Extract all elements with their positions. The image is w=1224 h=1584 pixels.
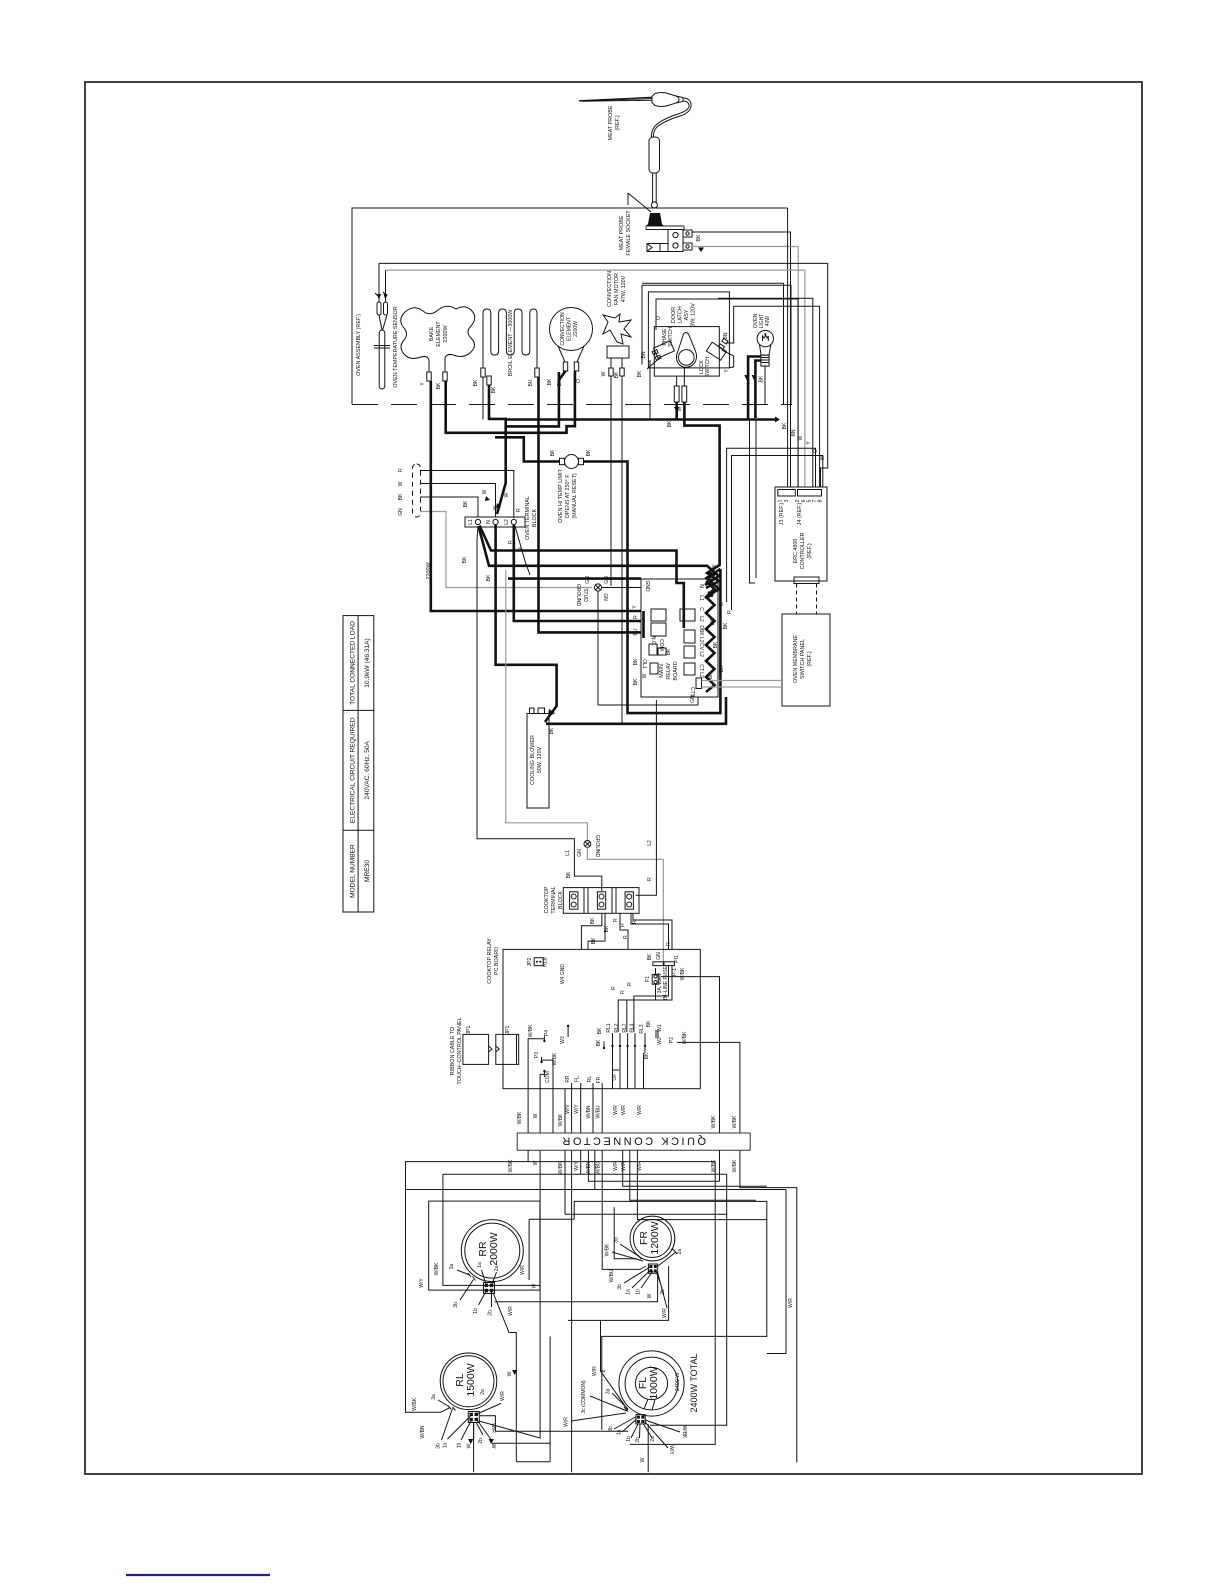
- svg-text:W/Y: W/Y: [668, 1445, 674, 1455]
- zigzag into relay N: [705, 569, 720, 598]
- svg-text:GROUND: GROUND: [594, 835, 600, 858]
- svg-text:1a: 1a: [626, 1289, 632, 1295]
- svg-text:ELEMENT: ELEMENT: [436, 321, 442, 347]
- svg-text:W/R: W/R: [500, 1391, 506, 1401]
- svg-text:BK: BK: [719, 665, 725, 672]
- svg-text:R: R: [633, 615, 639, 619]
- svg-text:ELECTRICAL CIRCUIT REQUIRED: ELECTRICAL CIRCUIT REQUIRED: [350, 717, 357, 823]
- svg-text:W/Y: W/Y: [574, 1104, 580, 1114]
- thick wire: broil left BK: [482, 377, 484, 420]
- svg-text:W/R: W/R: [520, 1265, 526, 1275]
- P3: [542, 1057, 554, 1068]
- svg-text:BK: BK: [759, 375, 765, 382]
- svg-text:BK: BK: [597, 1027, 603, 1034]
- svg-text:W/BN: W/BN: [586, 1161, 592, 1174]
- GROUND drop: [506, 570, 588, 840]
- svg-text:BN: BN: [641, 351, 647, 358]
- burner FR 1200W: [630, 1216, 675, 1261]
- svg-text:BK: BK: [633, 678, 639, 685]
- svg-text:W/Y: W/Y: [574, 1161, 580, 1171]
- thick bus lower: [508, 577, 641, 580]
- svg-text:BK: BK: [723, 622, 729, 629]
- oven temperature sensor: [374, 263, 390, 389]
- svg-text:BK: BK: [667, 420, 673, 427]
- RL terminal cluster: [438, 1400, 501, 1440]
- supply leads entry: [398, 464, 592, 588]
- svg-text:MAIN: MAIN: [659, 664, 665, 678]
- svg-text:W/BK: W/BK: [412, 1397, 418, 1410]
- svg-text:240VAC, 60Hz, 50A: 240VAC, 60Hz, 50A: [364, 740, 371, 799]
- svg-text:L1: L1: [468, 519, 474, 525]
- svg-text:COOLING BLOWER: COOLING BLOWER: [530, 735, 536, 785]
- light wires down to membrane area: [750, 419, 757, 583]
- svg-text:BK: BK: [463, 500, 469, 507]
- svg-text:BK: BK: [637, 370, 643, 377]
- svg-text:GN: GN: [604, 576, 610, 584]
- thick wire: lockY jog to temp limit: [495, 437, 560, 461]
- svg-text:RL: RL: [587, 1076, 593, 1083]
- svg-text:BK: BK: [604, 925, 610, 932]
- svg-text:L2: L2: [698, 616, 704, 622]
- svg-text:BK: BK: [436, 382, 442, 389]
- svg-text:OL1: OL1: [641, 659, 647, 669]
- blower thick wire to relay: [546, 697, 726, 724]
- svg-text:W/BK: W/BK: [711, 1115, 717, 1128]
- svg-text:RIBBON CABLE TO: RIBBON CABLE TO: [450, 1027, 456, 1076]
- svg-text:3a: 3a: [431, 1394, 437, 1400]
- svg-text:W3: W3: [560, 1036, 566, 1044]
- zigzag wires right of relay board: [706, 581, 715, 692]
- cooling blower: [527, 714, 549, 809]
- wire probe BK vertical: [787, 208, 789, 487]
- ground stud: [594, 584, 601, 591]
- svg-text:2b: 2b: [488, 1310, 494, 1316]
- phase switch: [647, 341, 674, 369]
- svg-text:FEMALE SOCKET: FEMALE SOCKET: [626, 210, 632, 256]
- lock switch wires: [727, 306, 820, 487]
- wires through quick connector: [406, 1046, 797, 1472]
- convection element: [550, 308, 593, 351]
- svg-text:W/Y: W/Y: [419, 1278, 425, 1288]
- svg-text:JP1: JP1: [505, 1025, 511, 1034]
- svg-text:OVEN TEMPERATURE SENSOR: OVEN TEMPERATURE SENSOR: [393, 306, 399, 387]
- svg-text:W/BK: W/BK: [605, 1243, 611, 1256]
- svg-text:CV L2: CV L2: [698, 643, 704, 657]
- L1 drop: [477, 526, 602, 891]
- svg-text:W/R: W/R: [613, 1161, 619, 1171]
- svg-text:SWITCH PANEL: SWITCH PANEL: [800, 639, 806, 679]
- bake element: [401, 306, 475, 372]
- lock switch: [706, 338, 728, 360]
- door latch outer box: [642, 285, 791, 404]
- leader from L2: [515, 526, 530, 575]
- svg-text:OVEN MEMBRANE: OVEN MEMBRANE: [793, 635, 799, 683]
- svg-text:W: W: [504, 492, 510, 497]
- oven light: [757, 330, 773, 404]
- svg-text:P4: P4: [544, 1030, 550, 1036]
- svg-text:GN: GN: [656, 952, 662, 960]
- svg-text:W/BU: W/BU: [609, 1269, 615, 1282]
- svg-text:BOARD: BOARD: [673, 661, 679, 680]
- svg-text:W/R: W/R: [621, 1161, 627, 1171]
- svg-text:2a: 2a: [677, 1249, 683, 1255]
- svg-text:BK: BK: [473, 379, 479, 386]
- thick wire: broil BU to relay BU: [539, 377, 642, 632]
- svg-text:CONVECTION: CONVECTION: [560, 312, 566, 346]
- svg-text:FAN MOTOR: FAN MOTOR: [614, 273, 620, 305]
- svg-text:C: C: [698, 607, 704, 611]
- wire socket BK to bus: [692, 232, 791, 487]
- F1 fuse: [652, 968, 659, 992]
- svg-text:CONVECTION: CONVECTION: [607, 271, 613, 307]
- svg-text:COM: COM: [545, 1071, 551, 1083]
- svg-text:2b: 2b: [478, 1438, 484, 1444]
- thick bottom bundle wire: [506, 418, 775, 421]
- svg-text:W/BK: W/BK: [517, 1111, 523, 1124]
- sensor wires to controller: [379, 263, 828, 487]
- svg-text:BK: BK: [666, 648, 672, 655]
- svg-text:BK: BK: [566, 871, 572, 878]
- svg-text:W/BK: W/BK: [558, 1161, 564, 1174]
- svg-text:N: N: [698, 584, 704, 588]
- oven terminal block: [465, 517, 525, 527]
- svg-text:BLOCK: BLOCK: [558, 890, 564, 909]
- light thick wires: [748, 357, 761, 420]
- svg-text:GND: GND: [644, 580, 650, 592]
- wires below cooktop block: [581, 913, 601, 949]
- svg-text:J4 (REF.): J4 (REF.): [797, 503, 803, 526]
- svg-text:OPENS AT 250° F.: OPENS AT 250° F.: [565, 474, 571, 519]
- W3: [567, 1025, 569, 1037]
- svg-text:W/R: W/R: [592, 1366, 598, 1376]
- svg-text:N.O.: N.O.: [650, 636, 656, 646]
- svg-text:W: W: [398, 481, 404, 486]
- svg-text:47W, 120V: 47W, 120V: [621, 275, 627, 302]
- relay O / R wires to controller: [727, 448, 816, 602]
- svg-text:MODEL NUMBER: MODEL NUMBER: [350, 844, 357, 898]
- svg-text:(REF.): (REF.): [807, 651, 813, 666]
- svg-text:W: W: [532, 1283, 538, 1288]
- svg-text:3a: 3a: [613, 1237, 619, 1243]
- svg-text:W: W: [482, 489, 488, 494]
- svg-text:O: O: [813, 449, 819, 453]
- svg-text:SWITCH: SWITCH: [668, 327, 674, 347]
- svg-text:8: 8: [818, 499, 824, 502]
- svg-text:(REF.): (REF.): [807, 543, 813, 558]
- svg-text:O: O: [576, 379, 582, 383]
- svg-text:MEAT PROBE: MEAT PROBE: [619, 215, 625, 250]
- svg-text:OVEN HI TEMP LIMIT: OVEN HI TEMP LIMIT: [558, 468, 564, 522]
- svg-text:MRE30: MRE30: [364, 860, 371, 882]
- svg-text:L1: L1: [698, 595, 704, 601]
- svg-text:1a: 1a: [477, 1262, 483, 1268]
- svg-text:W/V: W/V: [565, 1104, 571, 1114]
- svg-text:BK: BK: [696, 234, 702, 242]
- svg-text:LATCH: LATCH: [678, 306, 684, 323]
- thick bus L1 b: [479, 526, 720, 585]
- svg-text:R: R: [647, 877, 653, 881]
- N wire to blower: [496, 525, 557, 722]
- svg-text:RLB: RLB: [543, 956, 549, 966]
- svg-text:RELAY: RELAY: [666, 662, 672, 680]
- P2 W/BK out right: [677, 1042, 740, 1133]
- phase wire O to bus: [656, 299, 798, 487]
- JP1 ribbon connectors: [463, 1034, 489, 1064]
- svg-text:OVEN ASSEMBLY (REF.): OVEN ASSEMBLY (REF.): [356, 314, 362, 376]
- svg-text:BK: BK: [586, 449, 592, 456]
- svg-text:W: W: [798, 435, 804, 440]
- svg-text:1500W: 1500W: [465, 1363, 477, 1396]
- svg-text:BK: BK: [596, 1039, 602, 1046]
- svg-text:BK: BK: [462, 556, 468, 563]
- svg-text:50W, 120V: 50W, 120V: [537, 746, 543, 773]
- svg-text:W: W: [507, 1371, 513, 1376]
- wire socket Y to bus: [692, 247, 798, 488]
- FL terminal cluster: [571, 1393, 680, 1448]
- svg-text:W/BK: W/BK: [732, 1115, 738, 1128]
- bottom pins RR FL RL FR: [572, 1083, 603, 1089]
- svg-text:W/BK: W/BK: [732, 1159, 738, 1172]
- svg-text:BK: BK: [644, 1052, 650, 1059]
- svg-text:BN: BN: [723, 332, 729, 339]
- svg-text:GN: GN: [585, 576, 591, 584]
- L2 drop: [636, 700, 657, 895]
- svg-text:BK: BK: [550, 449, 556, 456]
- relay pins RL1 RL2 RL7 RL4 RL3: [603, 1033, 646, 1053]
- svg-text:BU: BU: [633, 628, 639, 635]
- rating table: [343, 616, 374, 912]
- membrane dashed link: [797, 584, 817, 615]
- latch cam: [676, 333, 696, 368]
- svg-text:BROIL ELEMENT —3000W: BROIL ELEMENT —3000W: [508, 309, 514, 377]
- svg-text:10.9kW (46.31A): 10.9kW (46.31A): [364, 638, 371, 687]
- svg-text:W/BU: W/BU: [596, 1161, 602, 1174]
- convection fan motor: [603, 314, 631, 344]
- svg-text:W/R: W/R: [662, 1308, 668, 1318]
- oven assembly box: [352, 208, 792, 405]
- svg-text:L2: L2: [647, 840, 653, 846]
- svg-text:RL3: RL3: [639, 1024, 645, 1033]
- svg-text:3a: 3a: [606, 1388, 612, 1394]
- svg-text:ASY: ASY: [684, 309, 690, 320]
- svg-text:GN: GN: [577, 849, 583, 857]
- svg-text:P3: P3: [534, 1052, 540, 1058]
- svg-text:W/R: W/R: [637, 1105, 643, 1115]
- svg-text:R: R: [611, 986, 617, 990]
- svg-text:BK: BK: [549, 727, 555, 734]
- svg-text:BN: BN: [791, 429, 797, 436]
- svg-text:2000W: 2000W: [488, 1232, 500, 1265]
- svg-text:RL4: RL4: [630, 1023, 636, 1032]
- meat probe needle: [579, 97, 652, 101]
- svg-text:W/BK: W/BK: [434, 1262, 440, 1275]
- svg-text:3W, 120V: 3W, 120V: [691, 303, 697, 327]
- svg-text:W: W: [647, 1293, 653, 1298]
- svg-text:1a: 1a: [443, 1443, 449, 1449]
- svg-text:1a: 1a: [616, 1430, 622, 1436]
- svg-text:2400 W: 2400 W: [675, 1372, 681, 1391]
- svg-text:3b: 3b: [608, 1426, 614, 1432]
- svg-text:P2: P2: [669, 1037, 675, 1043]
- svg-text:BK: BK: [486, 574, 492, 581]
- svg-text:1b: 1b: [457, 1443, 463, 1449]
- svg-text:2a: 2a: [650, 1436, 656, 1442]
- svg-text:W/R: W/R: [564, 1417, 570, 1427]
- outer latch wire: [642, 283, 784, 404]
- svg-text:W/BK: W/BK: [558, 1113, 564, 1126]
- svg-text:F1: F1: [645, 976, 651, 982]
- bake terminals: [427, 372, 431, 381]
- svg-text:W/BN: W/BN: [586, 1105, 592, 1118]
- svg-text:CONTROLLER: CONTROLLER: [800, 532, 806, 569]
- FR terminal cluster: [612, 1244, 677, 1308]
- svg-text:GN: GN: [602, 593, 608, 601]
- latch motor leads: [677, 368, 685, 386]
- CTS link to membrane: [696, 678, 702, 689]
- svg-text:P-1: P-1: [672, 968, 678, 976]
- border frame: [85, 82, 1142, 1474]
- svg-text:W/BK: W/BK: [528, 1024, 534, 1037]
- svg-text:RL1: RL1: [606, 1023, 612, 1032]
- footer rule: [126, 1574, 270, 1576]
- meat probe female socket: [646, 213, 692, 252]
- JP2: [534, 958, 543, 966]
- meat probe handle: [652, 93, 679, 107]
- svg-text:R: R: [632, 920, 638, 924]
- svg-text:W4 GND: W4 GND: [560, 964, 566, 984]
- svg-text:BK: BK: [710, 618, 716, 625]
- svg-text:BK: BK: [708, 672, 714, 679]
- svg-text:BK: BK: [547, 378, 553, 385]
- svg-text:3b: 3b: [617, 1284, 623, 1290]
- svg-text:3a: 3a: [449, 1264, 455, 1270]
- COM: [540, 1071, 544, 1133]
- svg-text:BK: BK: [590, 917, 596, 924]
- svg-text:2b: 2b: [635, 1437, 641, 1443]
- meat probe cord: [653, 98, 691, 137]
- svg-text:1200W: 1200W: [649, 1221, 661, 1254]
- svg-text:DOOR: DOOR: [671, 307, 677, 323]
- thick wire: broil BK to N: [489, 385, 506, 514]
- thick bus L1 a: [480, 526, 684, 629]
- svg-text:GN: GN: [398, 508, 404, 516]
- svg-text:(MANUAL RESET): (MANUAL RESET): [572, 473, 578, 519]
- svg-text:BK: BK: [633, 658, 639, 665]
- svg-text:2a: 2a: [494, 1266, 500, 1272]
- burner RL 1500W: [440, 1353, 497, 1410]
- svg-text:FL: FL: [575, 1076, 581, 1082]
- svg-text:DBK L2: DBK L2: [698, 625, 704, 642]
- svg-text:1000W: 1000W: [648, 1366, 660, 1399]
- svg-text:TERMINAL: TERMINAL: [551, 886, 557, 913]
- svg-text:W/R: W/R: [508, 1306, 514, 1316]
- P4: [528, 1036, 544, 1133]
- svg-text:BLOCK: BLOCK: [532, 508, 538, 527]
- svg-text:BK: BK: [646, 1020, 652, 1027]
- thick bus from L2: [514, 525, 641, 621]
- svg-text:TOTAL CONNECTED LOAD: TOTAL CONNECTED LOAD: [350, 621, 357, 705]
- svg-text:JP2: JP2: [527, 957, 533, 966]
- svg-text:ERC 4800: ERC 4800: [793, 539, 799, 564]
- svg-text:FR: FR: [596, 1076, 602, 1083]
- svg-text:QUICK CONNECTOR: QUICK CONNECTOR: [560, 1135, 706, 1147]
- thick stub on relay left edge: [642, 611, 645, 638]
- svg-text:W/R: W/R: [788, 1298, 794, 1308]
- svg-text:W/BU: W/BU: [596, 1105, 602, 1118]
- leader to socket: [628, 193, 651, 212]
- phase switch lead down: [649, 360, 651, 420]
- svg-text:BK: BK: [491, 386, 497, 393]
- svg-text:RL2: RL2: [614, 1023, 620, 1032]
- svg-text:W: W: [677, 406, 683, 411]
- svg-text:40W: 40W: [765, 316, 771, 327]
- svg-text:R: R: [620, 990, 626, 994]
- svg-text:BK: BK: [782, 422, 788, 429]
- svg-text:PI1: PI1: [674, 955, 680, 963]
- svg-text:W/R: W/R: [613, 1105, 619, 1115]
- svg-text:BK: BK: [591, 937, 597, 944]
- svg-text:W/R: W/R: [490, 1423, 496, 1433]
- meat probe plug shaft: [653, 173, 657, 202]
- svg-text:1b: 1b: [473, 1308, 479, 1314]
- svg-text:3b: 3b: [453, 1302, 459, 1308]
- svg-text:3c (COMMON): 3c (COMMON): [581, 1380, 587, 1414]
- svg-text:3b: 3b: [436, 1443, 442, 1449]
- svg-text:W: W: [533, 1160, 539, 1165]
- fan wires: [611, 376, 622, 723]
- svg-text:PC BOARD: PC BOARD: [494, 947, 500, 975]
- svg-text:W/BK: W/BK: [682, 1031, 688, 1044]
- svg-text:JP1: JP1: [466, 1025, 472, 1034]
- svg-text:3: 3: [784, 499, 790, 502]
- svg-text:2a: 2a: [480, 1389, 486, 1395]
- svg-text:R: R: [727, 610, 733, 614]
- svg-text:BK: BK: [614, 371, 620, 378]
- switch box: [654, 327, 719, 377]
- svg-text:J3 (REF.): J3 (REF.): [779, 503, 785, 526]
- svg-text:W/BK: W/BK: [508, 1159, 514, 1172]
- broil element: [483, 309, 537, 368]
- svg-text:W/R: W/R: [621, 1105, 627, 1115]
- svg-text:W2: W2: [657, 1037, 663, 1045]
- svg-text:BK: BK: [647, 953, 653, 960]
- svg-text:2200W: 2200W: [573, 321, 579, 337]
- svg-text:SWITCH: SWITCH: [705, 357, 711, 377]
- svg-text:GROUND: GROUND: [575, 584, 581, 607]
- svg-text:R: R: [398, 468, 404, 472]
- svg-text:1: 1: [778, 499, 784, 502]
- svg-text:R: R: [613, 918, 619, 922]
- svg-text:1b: 1b: [626, 1436, 632, 1442]
- svg-text:W: W: [467, 1443, 473, 1448]
- svg-text:W/BK: W/BK: [711, 1159, 717, 1172]
- wires from fuse/P-1: [618, 992, 655, 1032]
- svg-text:STUD: STUD: [582, 588, 588, 602]
- RR terminal cluster: [457, 1270, 497, 1307]
- W arrows near N: [485, 496, 501, 508]
- svg-text:R: R: [516, 508, 522, 512]
- svg-text:W: W: [712, 564, 718, 569]
- svg-text:2b: 2b: [660, 1289, 666, 1295]
- svg-text:OVEN TERMINAL: OVEN TERMINAL: [525, 496, 531, 540]
- svg-text:O: O: [656, 316, 662, 320]
- burner FL 1000W / 2400W total: [619, 1351, 684, 1416]
- svg-text:W/BK: W/BK: [681, 1426, 687, 1439]
- svg-text:W: W: [640, 1457, 646, 1462]
- thick wire: bake BK to conv O: [446, 371, 575, 433]
- latch thick leads to bus: [675, 402, 678, 420]
- svg-text:R: R: [666, 942, 672, 946]
